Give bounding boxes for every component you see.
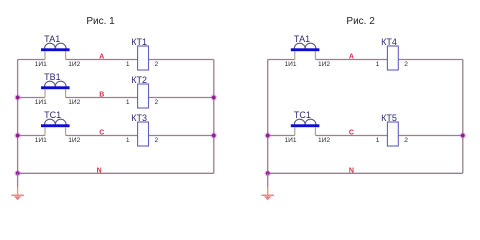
wire neutral N (fig1) [18, 172, 214, 174]
wire phase A left (fig1) [18, 59, 45, 61]
svg-text:1И2: 1И2 [318, 137, 330, 144]
wire phase C middle (fig2) [315, 135, 387, 137]
svg-text:1И1: 1И1 [35, 99, 47, 106]
junction left bus / N (fig2) [265, 170, 271, 176]
svg-text:1И2: 1И2 [68, 61, 80, 68]
wire phase C left (fig2) [268, 135, 295, 137]
svg-text:КТ2: КТ2 [131, 75, 147, 85]
svg-text:2: 2 [155, 137, 159, 144]
svg-text:2: 2 [404, 61, 408, 68]
wire phase A left (fig2) [268, 59, 295, 61]
svg-text:N: N [97, 167, 102, 174]
svg-text:КТ5: КТ5 [381, 113, 397, 123]
wire ground stem fig2 [267, 173, 269, 187]
svg-text:ТВ1: ТВ1 [44, 72, 61, 82]
wire phase C middle (fig1) [66, 135, 138, 137]
ground fig2 [261, 187, 274, 200]
svg-text:A: A [349, 54, 354, 61]
svg-text:N: N [349, 167, 354, 174]
relay coil КТ4 [381, 37, 398, 70]
svg-text:Рис. 1: Рис. 1 [86, 16, 115, 27]
svg-text:2: 2 [155, 61, 159, 68]
junction left bus / phase B (fig1) [15, 94, 21, 100]
svg-text:1И2: 1И2 [68, 99, 80, 106]
svg-text:1И2: 1И2 [68, 137, 80, 144]
wire phase A right (fig1) [149, 59, 214, 61]
svg-text:Рис. 2: Рис. 2 [346, 16, 375, 27]
svg-text:КТ4: КТ4 [381, 37, 397, 47]
junction right bus / phase B (fig1) [211, 94, 217, 100]
svg-text:ТА1: ТА1 [294, 34, 310, 44]
relay coil КТ5 [381, 113, 398, 146]
wire right bus (fig2) [462, 60, 464, 174]
svg-text:C: C [349, 130, 354, 137]
svg-text:КТ3: КТ3 [131, 113, 147, 123]
current transformer ТА1 [291, 34, 320, 60]
svg-text:1И1: 1И1 [285, 61, 297, 68]
wire phase A middle (fig1) [66, 59, 138, 61]
svg-text:1И2: 1И2 [318, 61, 330, 68]
ground fig1 [11, 187, 24, 200]
current transformer ТС1 [41, 110, 70, 136]
svg-text:B: B [99, 92, 104, 99]
wire phase B right (fig1) [149, 97, 214, 99]
svg-text:1: 1 [126, 137, 130, 144]
wire phase C right (fig1) [149, 135, 214, 137]
svg-text:1: 1 [376, 137, 380, 144]
svg-text:ТС1: ТС1 [44, 110, 61, 120]
wire left bus (fig1) [17, 60, 19, 174]
wire phase B middle (fig1) [66, 97, 138, 99]
wire phase C left (fig1) [18, 135, 45, 137]
wire left bus (fig2) [267, 60, 269, 174]
svg-text:КТ1: КТ1 [131, 37, 147, 47]
wire neutral N (fig2) [268, 172, 463, 174]
junction right bus / phase C (fig2) [460, 132, 466, 138]
svg-text:1И1: 1И1 [35, 137, 47, 144]
svg-text:1: 1 [126, 61, 130, 68]
junction left bus / N (fig1) [15, 170, 21, 176]
relay coil КТ1 [131, 37, 148, 70]
junction right bus / phase C (fig1) [211, 132, 217, 138]
svg-text:A: A [99, 54, 104, 61]
svg-text:C: C [99, 130, 104, 137]
relay coil КТ3 [131, 113, 148, 146]
svg-text:1: 1 [376, 61, 380, 68]
junction left bus / phase C (fig2) [265, 132, 271, 138]
svg-text:ТС1: ТС1 [294, 110, 311, 120]
current transformer ТС1 [291, 110, 320, 136]
svg-text:1И1: 1И1 [285, 137, 297, 144]
svg-text:1И1: 1И1 [35, 61, 47, 68]
wire right bus (fig1) [213, 60, 215, 174]
svg-text:1: 1 [126, 99, 130, 106]
wire phase A right (fig2) [398, 59, 463, 61]
svg-text:ТА1: ТА1 [44, 34, 60, 44]
svg-text:2: 2 [155, 99, 159, 106]
wire ground stem fig1 [17, 173, 19, 187]
current transformer ТА1 [41, 34, 70, 60]
wire phase C right (fig2) [398, 135, 463, 137]
junction left bus / phase C (fig1) [15, 132, 21, 138]
wire phase A middle (fig2) [315, 59, 387, 61]
svg-text:2: 2 [404, 137, 408, 144]
relay coil КТ2 [131, 75, 148, 108]
current transformer ТВ1 [41, 72, 70, 98]
wire phase B left (fig1) [18, 97, 45, 99]
